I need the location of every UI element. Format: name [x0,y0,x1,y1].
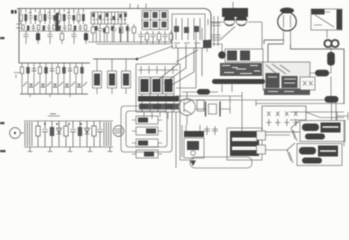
winding W2 [132,127,162,135]
artifact left edge 2 [0,122,5,124]
coil L1 outer loop [121,106,172,152]
resistor R30 pill [309,70,331,77]
lower band small parts [23,31,172,44]
transistor Q1 [179,92,204,125]
wire hanging bottom line [20,93,88,95]
inductor L3 pill [182,89,218,95]
potentiometer VR1 [184,125,204,166]
tube V1 [264,8,344,105]
node junction J1 [136,58,139,61]
wire bank to heads [290,100,344,124]
capacitor C30 electrolytic [327,48,335,71]
IF strip stage components row A [19,9,85,32]
lamp P1 goggles [324,40,338,47]
resistor comb group [91,12,129,42]
generator G1 [10,128,24,139]
capacitor C21 C22 coupling [212,16,221,46]
wire second bottom line [88,42,172,44]
head assembly H2 lower [287,143,342,166]
crystal X1 [196,102,230,117]
oscillator block A1 [311,9,342,38]
cable bundle right [104,122,111,146]
motor circuit parts [36,121,103,147]
resistor R31 pill [325,77,339,125]
winding W4 [132,150,162,158]
wire lower bus left [19,62,90,64]
winding W1 [132,116,162,124]
wire rail cross ticks [16,24,22,28]
wire descender bundle [158,48,202,86]
module A2 bias board [176,28,265,92]
wire motor top bus [24,120,113,122]
wire left rail [18,9,20,64]
node M label [11,10,17,14]
node label text [48,114,60,116]
amplifier box U1 [172,14,205,48]
IF strip components row B [22,24,87,31]
winding W3 [132,139,162,147]
wire motor bottom bus [24,146,113,148]
meter M1 twin dial [208,2,262,49]
wire diagonal riser [137,46,173,59]
capacitor C31 C32 [204,126,218,135]
wire module drops [176,112,180,168]
wire routing right [242,100,344,106]
capacitor C1 electrolytic [93,59,102,94]
bus bar BB1 [190,157,252,168]
wire heads top comb [290,112,348,120]
wire left drops [180,125,190,160]
artifact left edge 1 [0,37,5,39]
transformer T1 E-core [142,11,168,30]
hanging bias network drops [20,63,88,97]
wire band bottom line [19,30,90,32]
switch bank S2 [262,106,306,132]
wire cap bank bus [93,58,137,60]
wire mid horizontals [176,92,242,132]
wire top supply bus [17,9,211,49]
module K1 output stage box [136,64,180,119]
head assembly H1 upper [291,121,345,147]
chassis block B1 [263,62,310,95]
mid band small parts [91,24,136,42]
cable bundle left [25,122,32,146]
wire bus ticks [130,4,146,9]
artifact left edge 3 [0,150,6,152]
capacitor C2 electrolytic [108,59,117,94]
node test point marks [14,73,20,79]
switch box S1 [300,77,315,90]
capacitor C3 electrolytic [122,59,131,94]
coil L2 inner loop [126,111,167,147]
relay RL1 [227,128,290,160]
motor M2 [113,126,124,137]
node junction dots motor circuit [44,123,46,125]
wire under-bus stubs [28,147,113,152]
